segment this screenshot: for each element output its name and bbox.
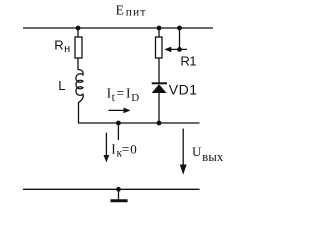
resistor R1 body	[156, 37, 163, 58]
svg-text:I: I	[126, 85, 131, 100]
wire bottom ground rail	[23, 188, 200, 190]
svg-text:t: t	[112, 92, 116, 104]
node wiper bend	[177, 47, 182, 52]
svg-text:=: =	[117, 85, 125, 100]
svg-text:L: L	[58, 78, 65, 93]
svg-text:VD1: VD1	[169, 81, 198, 97]
inductor L coil	[76, 70, 83, 103]
diode VD1 anode triangle	[152, 84, 167, 93]
wire from top rail to Rn	[77, 28, 79, 37]
wire top supply rail	[23, 27, 213, 29]
wire R1 to diode	[158, 58, 160, 83]
arrow current IL right	[109, 109, 126, 111]
node junction at left branch on top rail	[76, 26, 81, 31]
wire Rn to inductor	[77, 58, 79, 70]
wire inductor to bottom middle wire	[78, 102, 80, 123]
svg-text:0: 0	[130, 142, 137, 157]
node junction wiper branch on top rail	[177, 26, 182, 31]
svg-text:1: 1	[189, 53, 196, 68]
svg-text:U: U	[192, 144, 202, 159]
svg-text:н: н	[64, 43, 70, 55]
wire collector stub	[117, 123, 119, 140]
node junction middle wire and diode branch	[157, 121, 162, 126]
svg-text:=: =	[122, 142, 130, 157]
wire wiper horizontal with arrow into R1	[168, 48, 187, 50]
resistor Rн body	[75, 37, 82, 58]
wire top rail to R1	[158, 28, 160, 37]
node junction with stub (collector)	[116, 121, 121, 126]
diode VD1 cathode bar	[152, 82, 167, 84]
wire middle horizontal	[78, 122, 200, 124]
wire diode to middle wire	[158, 93, 160, 123]
svg-text:D: D	[131, 92, 139, 104]
svg-text:E: E	[116, 3, 124, 18]
ground symbol	[118, 189, 120, 200]
svg-text:вых: вых	[202, 150, 224, 164]
wire wiper branch vertical	[179, 28, 181, 49]
svg-text:пит: пит	[126, 6, 147, 18]
node junction ground	[116, 187, 121, 192]
arrow voltage Uout down	[182, 129, 184, 168]
arrow current Ik down	[105, 133, 107, 157]
svg-text:R: R	[54, 38, 63, 53]
node junction R1 branch on top rail	[157, 26, 162, 31]
